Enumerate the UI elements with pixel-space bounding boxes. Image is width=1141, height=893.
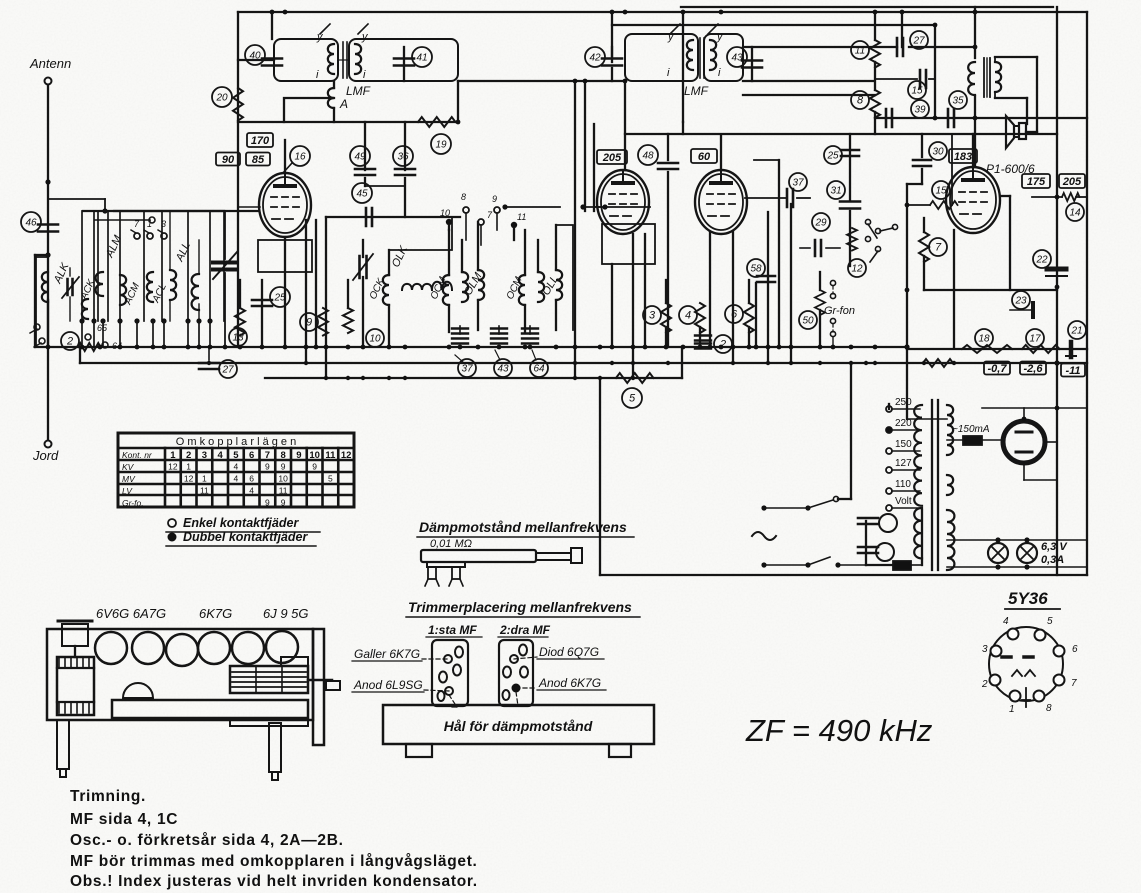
svg-text:11: 11 — [200, 486, 209, 496]
svg-text:Antenn: Antenn — [29, 56, 71, 71]
svg-text:4: 4 — [685, 310, 691, 322]
svg-text:37: 37 — [792, 178, 804, 189]
svg-text:42: 42 — [589, 53, 601, 64]
svg-text:29: 29 — [814, 218, 827, 229]
svg-text:Osc.- o. förkretsår sida 4, 2A: Osc.- o. förkretsår sida 4, 2A—2B. — [70, 832, 344, 849]
svg-text:3: 3 — [202, 450, 207, 461]
svg-text:-2,6: -2,6 — [1024, 363, 1044, 375]
svg-text:Gr-fon: Gr-fon — [824, 305, 855, 317]
svg-text:12: 12 — [341, 450, 352, 461]
svg-text:7: 7 — [1071, 678, 1077, 689]
svg-text:4: 4 — [217, 450, 223, 461]
svg-text:6: 6 — [249, 474, 254, 484]
svg-text:9: 9 — [281, 498, 286, 508]
svg-text:65: 65 — [97, 323, 108, 333]
svg-text:6,3 V: 6,3 V — [1041, 541, 1068, 553]
svg-text:4: 4 — [1003, 616, 1009, 627]
svg-text:10: 10 — [278, 474, 288, 484]
svg-text:A: A — [339, 97, 348, 111]
svg-text:Anod 6K7G: Anod 6K7G — [538, 676, 601, 690]
svg-text:21: 21 — [1070, 326, 1082, 337]
svg-text:11: 11 — [279, 486, 288, 496]
svg-text:85: 85 — [252, 154, 265, 166]
svg-text:9: 9 — [265, 462, 270, 472]
svg-text:36: 36 — [397, 152, 409, 163]
svg-text:9: 9 — [312, 462, 317, 472]
svg-text:Diod 6Q7G: Diod 6Q7G — [539, 645, 599, 659]
svg-text:14: 14 — [1069, 208, 1081, 219]
svg-text:250: 250 — [895, 397, 912, 408]
svg-text:2:dra MF: 2:dra MF — [499, 623, 551, 637]
svg-text:Kont. nr: Kont. nr — [122, 450, 153, 460]
svg-text:Gr-fo.: Gr-fo. — [122, 498, 144, 508]
svg-text:127: 127 — [895, 458, 912, 469]
svg-text:5: 5 — [233, 450, 239, 461]
svg-text:6: 6 — [731, 309, 738, 321]
svg-text:183: 183 — [954, 151, 972, 163]
svg-text:MF bör trimmas med omkopplaren: MF bör trimmas med omkopplaren i långvåg… — [70, 853, 478, 870]
svg-text:KV: KV — [122, 462, 135, 472]
svg-text:-11: -11 — [1065, 365, 1080, 377]
svg-text:17: 17 — [1029, 334, 1041, 345]
svg-text:19: 19 — [435, 140, 447, 151]
svg-text:15: 15 — [911, 86, 923, 97]
svg-text:11: 11 — [855, 46, 865, 57]
svg-text:150: 150 — [895, 439, 912, 450]
svg-text:7: 7 — [265, 450, 270, 461]
svg-text:6: 6 — [1072, 644, 1078, 655]
svg-text:43: 43 — [731, 53, 743, 64]
svg-text:-0,7: -0,7 — [988, 363, 1008, 375]
svg-text:205: 205 — [1062, 176, 1082, 188]
svg-text:4: 4 — [249, 486, 254, 496]
svg-text:6: 6 — [249, 450, 254, 461]
svg-text:Galler 6K7G: Galler 6K7G — [354, 647, 420, 661]
svg-text:1: 1 — [170, 450, 176, 461]
svg-text:205: 205 — [602, 152, 622, 164]
svg-text:1:sta MF: 1:sta MF — [428, 623, 477, 637]
svg-text:Dämpmotstånd mellanfrekvens: Dämpmotstånd mellanfrekvens — [419, 519, 627, 535]
svg-text:6J 9 5G: 6J 9 5G — [263, 606, 309, 621]
svg-text:9: 9 — [265, 498, 270, 508]
svg-text:Volt: Volt — [895, 496, 912, 507]
svg-text:2: 2 — [981, 679, 988, 690]
svg-text:11: 11 — [517, 212, 526, 222]
svg-text:10: 10 — [309, 450, 320, 461]
svg-text:25: 25 — [273, 293, 286, 304]
svg-text:8: 8 — [280, 450, 285, 461]
svg-text:0,01 MΩ: 0,01 MΩ — [430, 538, 472, 550]
svg-text:3: 3 — [982, 644, 988, 655]
svg-text:25: 25 — [826, 151, 839, 162]
svg-text:~150mA: ~150mA — [952, 424, 990, 435]
svg-text:50: 50 — [802, 316, 814, 327]
svg-text:Trimning.: Trimning. — [70, 788, 146, 805]
svg-text:Jord: Jord — [32, 448, 59, 463]
svg-text:27: 27 — [221, 365, 234, 376]
svg-text:Hål för dämpmotstånd: Hål för dämpmotstånd — [444, 718, 593, 734]
svg-text:90: 90 — [222, 154, 235, 166]
svg-text:Trimmerplacering mellanfrekven: Trimmerplacering mellanfrekvens — [408, 599, 632, 615]
svg-text:Enkel kontaktfjäder: Enkel kontaktfjäder — [183, 516, 299, 530]
svg-text:46: 46 — [25, 218, 37, 229]
svg-text:35: 35 — [952, 96, 964, 107]
svg-text:12: 12 — [168, 462, 178, 472]
svg-text:30: 30 — [932, 147, 944, 158]
svg-text:MF sida 4, 1C: MF sida 4, 1C — [70, 811, 178, 828]
svg-text:5: 5 — [1047, 616, 1053, 627]
svg-text:1: 1 — [1009, 704, 1015, 715]
svg-text:9: 9 — [281, 462, 286, 472]
svg-text:11: 11 — [325, 450, 336, 461]
svg-text:9: 9 — [296, 450, 301, 461]
svg-text:1: 1 — [202, 474, 207, 484]
svg-text:2: 2 — [186, 450, 191, 461]
svg-text:13: 13 — [232, 333, 244, 344]
svg-text:58: 58 — [750, 264, 762, 275]
svg-text:3: 3 — [649, 310, 656, 322]
svg-text:37: 37 — [461, 364, 473, 375]
svg-text:23: 23 — [1014, 296, 1027, 307]
svg-text:2: 2 — [66, 336, 73, 348]
svg-text:7: 7 — [935, 242, 942, 254]
svg-text:16: 16 — [294, 152, 306, 163]
svg-text:22: 22 — [1035, 255, 1048, 266]
svg-text:49: 49 — [354, 152, 366, 163]
svg-text:39: 39 — [914, 105, 926, 116]
svg-text:ZF = 490 kHz: ZF = 490 kHz — [745, 713, 933, 748]
svg-text:6K7G: 6K7G — [199, 606, 232, 621]
svg-text:170: 170 — [251, 135, 270, 147]
svg-text:Anod 6L9SG: Anod 6L9SG — [353, 678, 423, 692]
svg-text:9: 9 — [306, 317, 312, 329]
svg-text:48: 48 — [642, 151, 654, 162]
svg-text:31: 31 — [830, 186, 841, 197]
svg-text:6V6G 6A7G: 6V6G 6A7G — [96, 606, 166, 621]
svg-text:43: 43 — [497, 364, 509, 375]
svg-text:MV: MV — [122, 474, 136, 484]
svg-text:110: 110 — [895, 479, 911, 490]
svg-text:41: 41 — [416, 53, 427, 64]
svg-text:10: 10 — [440, 208, 450, 218]
svg-text:8: 8 — [461, 192, 466, 202]
svg-text:5: 5 — [328, 474, 333, 484]
svg-text:20: 20 — [215, 93, 228, 104]
svg-text:10: 10 — [369, 334, 381, 345]
svg-text:5: 5 — [629, 393, 636, 405]
svg-text:175: 175 — [1027, 176, 1046, 188]
svg-text:4: 4 — [234, 474, 239, 484]
svg-text:27: 27 — [912, 36, 925, 47]
svg-text:4: 4 — [234, 462, 239, 472]
svg-text:LMF: LMF — [684, 84, 709, 98]
svg-text:60: 60 — [698, 151, 711, 163]
svg-text:0,3A: 0,3A — [1041, 554, 1064, 566]
svg-text:3: 3 — [161, 219, 166, 229]
svg-text:45: 45 — [356, 189, 368, 200]
svg-text:LV: LV — [122, 486, 133, 496]
svg-text:O m k o p p l a r l ä g e n: O m k o p p l a r l ä g e n — [176, 436, 296, 448]
svg-text:8: 8 — [1046, 703, 1052, 714]
svg-text:64: 64 — [533, 364, 545, 375]
svg-text:5Y36: 5Y36 — [1008, 589, 1048, 608]
svg-text:12: 12 — [184, 474, 194, 484]
svg-text:LMF: LMF — [346, 84, 371, 98]
svg-text:18: 18 — [978, 334, 990, 345]
svg-text:Obs.! Index justeras vid helt: Obs.! Index justeras vid helt invriden k… — [70, 873, 478, 890]
svg-text:9: 9 — [492, 194, 497, 204]
svg-text:12: 12 — [851, 264, 863, 275]
svg-text:1: 1 — [186, 462, 191, 472]
svg-text:Dubbel kontaktfjäder: Dubbel kontaktfjäder — [183, 530, 308, 544]
svg-text:15: 15 — [935, 186, 947, 197]
svg-text:1: 1 — [147, 219, 152, 229]
svg-text:8: 8 — [857, 95, 864, 107]
